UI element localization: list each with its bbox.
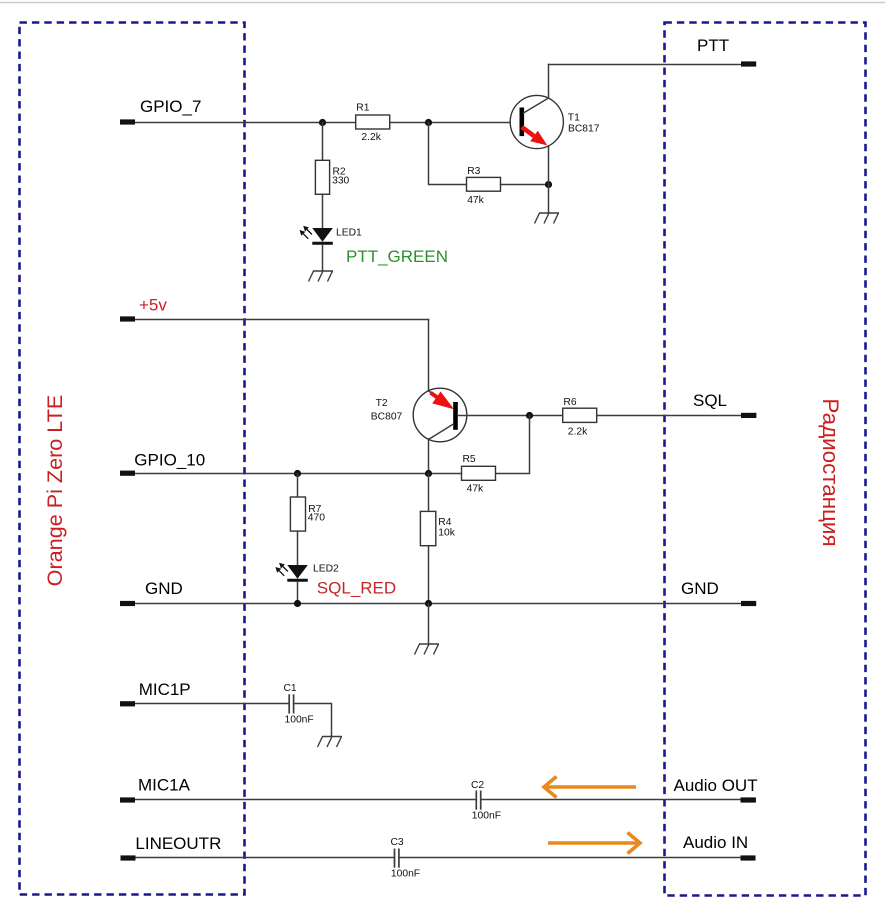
svg-text:C2: C2: [471, 780, 484, 791]
wire R7 to LED2: [297, 531, 299, 565]
arrow Audio OUT (orange, left): [544, 777, 636, 798]
resistor R5: [462, 466, 496, 480]
svg-text:R1: R1: [356, 103, 369, 114]
svg-text:LED2: LED2: [313, 564, 339, 575]
svg-text:BC807: BC807: [371, 412, 403, 423]
terminal MIC1P: [120, 701, 135, 706]
resistor R2: [315, 160, 329, 194]
wire MIC1A left: [135, 799, 476, 801]
wire LED2 to GND line: [297, 582, 299, 604]
node D (base / R5 junction): [526, 412, 533, 419]
terminal GPIO_10: [120, 471, 135, 476]
wire GND to ground symbol: [428, 604, 430, 645]
ground (T1 emitter): [535, 213, 560, 224]
svg-text:GPIO_10: GPIO_10: [134, 450, 205, 469]
svg-text:100nF: 100nF: [285, 715, 314, 726]
wire SQL: [597, 415, 741, 417]
wire R3 to emitter node: [501, 184, 549, 186]
svg-text:T1: T1: [568, 112, 580, 123]
arrow Audio IN (orange, right): [548, 833, 640, 854]
resistor R4: [420, 511, 435, 545]
svg-text:Audio OUT: Audio OUT: [674, 776, 758, 795]
wire LINEOUTR left: [136, 857, 395, 859]
svg-text:GND: GND: [681, 579, 719, 598]
svg-text:BC817: BC817: [568, 124, 600, 135]
wire LED1 to ground: [322, 245, 324, 271]
svg-text:MIC1P: MIC1P: [139, 680, 191, 699]
wire R2 top: [322, 123, 324, 161]
svg-text:SQL_RED: SQL_RED: [317, 578, 396, 597]
wire MIC1P: [135, 703, 289, 705]
svg-text:T2: T2: [376, 398, 388, 409]
wire R2 to LED1: [322, 194, 324, 228]
svg-text:47k: 47k: [467, 195, 484, 206]
node G (LED2 / GND junction): [294, 600, 301, 607]
terminal GND right: [741, 601, 756, 606]
capacitor C1: [289, 694, 293, 713]
terminal PTT: [741, 61, 756, 66]
terminal +5v: [120, 316, 135, 321]
resistor R7: [290, 497, 305, 531]
svg-text:2.2k: 2.2k: [361, 132, 381, 143]
svg-text:SQL: SQL: [693, 391, 727, 410]
wire R5 right vertical: [496, 416, 530, 474]
terminal Audio IN: [741, 855, 756, 860]
svg-text:PTT_GREEN: PTT_GREEN: [346, 247, 448, 266]
left dashed box (Orange Pi Zero LTE block): [20, 23, 245, 895]
wire +5v horizontal: [134, 319, 429, 321]
wire GPIO_7 horizontal: [135, 122, 520, 124]
svg-text:470: 470: [308, 513, 325, 524]
resistor R3: [467, 177, 501, 191]
terminal Audio OUT: [741, 797, 756, 802]
svg-text:MIC1A: MIC1A: [138, 776, 191, 795]
terminal SQL: [741, 413, 756, 418]
wire T2 collector down: [428, 439, 430, 474]
transistor T1 collector line: [524, 98, 549, 113]
wire C1 to ground: [294, 704, 332, 737]
ground (below LED1): [309, 271, 334, 282]
capacitor C3: [395, 849, 399, 868]
wire R7 top: [297, 474, 299, 498]
resistor R1: [356, 115, 390, 129]
LED LED2: [275, 563, 307, 581]
wire T1 emitter down: [548, 146, 550, 213]
svg-text:C1: C1: [284, 683, 297, 694]
wire MIC1A right: [481, 799, 741, 801]
svg-text:10k: 10k: [438, 528, 455, 539]
wire R4 top: [428, 474, 430, 512]
svg-text:47k: 47k: [467, 484, 484, 495]
wire T1 collector up: [548, 65, 550, 99]
top hairline border: [0, 2, 885, 4]
terminal GND left: [120, 601, 135, 606]
wire LINEOUTR right: [399, 857, 741, 859]
svg-text:330: 330: [332, 176, 349, 187]
ground (C1): [318, 737, 343, 748]
svg-text:GPIO_7: GPIO_7: [140, 97, 201, 116]
svg-text:100nF: 100nF: [472, 811, 501, 822]
wire GND horizontal: [135, 603, 741, 605]
wire PTT: [549, 64, 742, 66]
transistor T2 collector line: [429, 424, 454, 440]
terminal MIC1A: [120, 797, 135, 802]
ground (below GND line): [415, 644, 440, 655]
svg-text:R5: R5: [463, 454, 476, 465]
svg-text:R6: R6: [563, 397, 576, 408]
svg-text:LED1: LED1: [336, 228, 362, 239]
LED LED1: [300, 226, 333, 244]
svg-text:R4: R4: [438, 517, 451, 528]
wire +5v down to T2 emitter: [428, 320, 430, 392]
svg-text:100nF: 100nF: [391, 869, 420, 880]
transistor T1 body circle: [510, 95, 563, 148]
capacitor C2: [476, 791, 480, 810]
svg-text:Audio IN: Audio IN: [683, 833, 748, 852]
svg-text:Orange Pi Zero LTE: Orange Pi Zero LTE: [42, 395, 67, 587]
node H (R4 / GND junction): [425, 600, 432, 607]
wire node B down to R3: [429, 123, 467, 185]
node C (R3 / emitter junction): [545, 181, 552, 188]
node F (R7 branch): [294, 470, 301, 477]
svg-text:R3: R3: [467, 166, 480, 177]
transistor T1 base bar: [520, 108, 525, 137]
node A (GPIO_7 / R2 junction): [319, 119, 326, 126]
terminal GPIO_7: [120, 119, 135, 124]
svg-text:2.2k: 2.2k: [568, 427, 588, 438]
transistor T2 body circle: [413, 388, 467, 442]
wire R5 to node E: [429, 473, 462, 475]
wire GPIO_10 horizontal: [134, 473, 429, 475]
svg-text:+5v: +5v: [139, 296, 167, 315]
transistor T1 emitter red arrow: [522, 127, 548, 145]
transistor T2 base bar: [453, 402, 458, 430]
svg-text:PTT: PTT: [697, 36, 729, 55]
svg-text:Радиостанция: Радиостанция: [818, 398, 843, 546]
svg-text:GND: GND: [145, 579, 183, 598]
terminal LINEOUTR: [121, 855, 136, 860]
transistor T2 emitter red arrow (points into base): [431, 392, 455, 410]
transistor T2 emitter line: [429, 391, 439, 397]
node B (R1 out / R3 branch): [425, 119, 432, 126]
wire T2 base to node: [458, 415, 563, 417]
node E (collector / R4 / R5 junction): [425, 470, 432, 477]
right dashed box (Радиостанция block): [665, 23, 866, 896]
resistor R6: [563, 408, 597, 422]
svg-text:LINEOUTR: LINEOUTR: [135, 834, 221, 853]
wire R4 bottom to GND line: [428, 546, 430, 604]
svg-text:C3: C3: [391, 837, 404, 848]
